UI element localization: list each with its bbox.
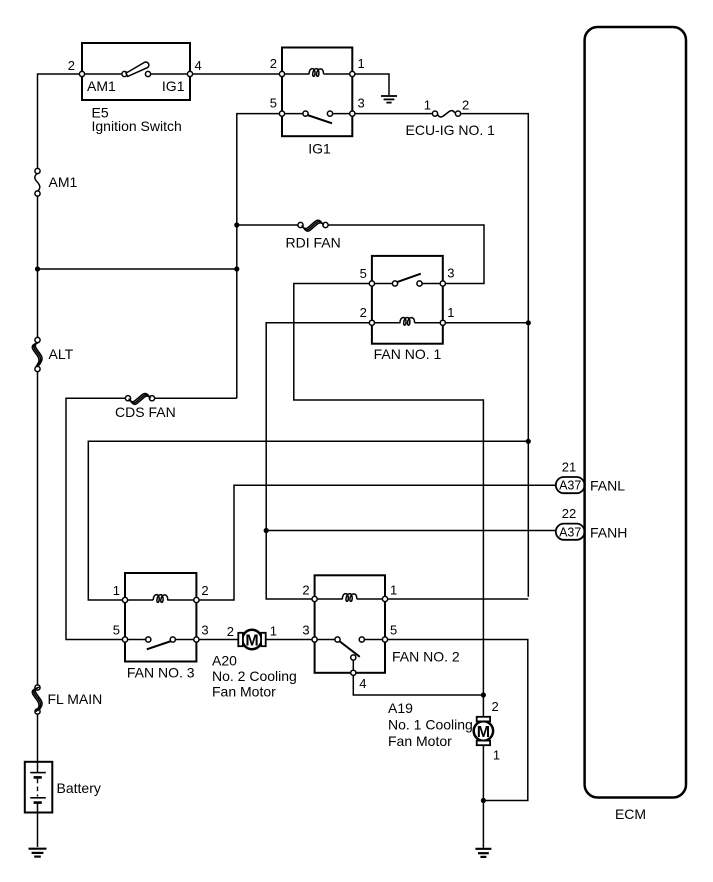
svg-text:ECM: ECM — [615, 806, 646, 822]
fusible link ALT — [32, 337, 42, 371]
svg-text:A37: A37 — [559, 479, 581, 493]
relay FAN NO. 3 — [122, 573, 199, 662]
svg-text:No. 2 Cooling: No. 2 Cooling — [212, 668, 297, 684]
svg-text:Fan Motor: Fan Motor — [388, 733, 452, 749]
svg-text:5: 5 — [113, 623, 120, 638]
wire IG1 pin5 down to CDS FAN — [237, 114, 282, 399]
svg-text:CDS FAN: CDS FAN — [115, 404, 176, 420]
svg-text:1: 1 — [447, 305, 454, 320]
svg-text:FAN NO. 2: FAN NO. 2 — [392, 649, 460, 665]
ground (IG1) — [381, 96, 397, 103]
svg-text:2: 2 — [201, 583, 208, 598]
junction IG1 pin5 bus y269 — [234, 266, 239, 271]
battery — [25, 762, 53, 813]
switch lever FAN NO.3 — [147, 641, 172, 649]
fuse RDI FAN — [298, 220, 328, 231]
wire FAN NO.2 pin4 to A19 motor node — [353, 673, 483, 695]
svg-text:Ignition Switch: Ignition Switch — [92, 118, 182, 134]
svg-text:1: 1 — [270, 624, 277, 639]
wire FAN NO.1 pin1 to ECU-IG bus — [443, 322, 529, 324]
svg-text:3: 3 — [201, 623, 208, 638]
wire FAN NO.3 pin3 to A20 motor to FAN NO.2 pin3 — [196, 639, 314, 641]
relay FAN NO. 2 — [312, 575, 388, 675]
svg-text:21: 21 — [562, 460, 576, 475]
junction ECU-IG bus at FAN NO.1 pin1 — [526, 320, 531, 325]
svg-text:5: 5 — [390, 623, 397, 638]
wire battery positive bus (E5 pin2 down left side to battery) — [38, 74, 83, 762]
wire FANH branch to ECM — [266, 530, 556, 532]
fuse CDS FAN — [125, 393, 154, 404]
junction fan ground node — [481, 798, 486, 803]
svg-text:FAN NO. 1: FAN NO. 1 — [374, 346, 442, 362]
ignition switch E5 — [79, 43, 192, 100]
wire FAN NO.1 pin2 to FAN NO.2 pin2 (FANH net) — [266, 323, 372, 599]
ground (fan motors) — [475, 849, 491, 857]
coil FAN NO.2 — [342, 594, 357, 602]
wire RDI FAN branch to FAN NO.1 pin3 — [237, 225, 484, 284]
svg-text:3: 3 — [358, 96, 365, 111]
wire battery negative to ground — [37, 813, 39, 848]
svg-text:IG1: IG1 — [308, 141, 331, 157]
svg-text:No. 1 Cooling: No. 1 Cooling — [388, 717, 473, 733]
relay IG1 — [279, 48, 355, 137]
svg-text:3: 3 — [302, 623, 309, 638]
wire FAN NO.1 pin5 to A19 motor — [294, 284, 484, 717]
svg-text:A37: A37 — [559, 525, 581, 539]
svg-text:ECU-IG NO. 1: ECU-IG NO. 1 — [406, 122, 496, 138]
svg-text:Battery: Battery — [57, 780, 101, 796]
svg-text:1: 1 — [113, 583, 120, 598]
svg-text:1: 1 — [424, 98, 431, 113]
fuse AM1 — [35, 168, 40, 196]
svg-text:Fan Motor: Fan Motor — [212, 684, 276, 700]
svg-text:22: 22 — [562, 506, 576, 521]
fusible link FL MAIN — [32, 685, 42, 714]
coil IG1 — [309, 69, 324, 77]
svg-text:2: 2 — [462, 98, 469, 113]
wire link AM1 bus to IG1 pin5 bus — [38, 268, 237, 270]
svg-text:2: 2 — [360, 305, 367, 320]
switch lever IG1 — [307, 115, 332, 123]
svg-text:IG1: IG1 — [162, 78, 185, 94]
wire FAN NO.3 pin2 to ECM (FANL net) — [196, 485, 555, 600]
svg-text:FANH: FANH — [590, 525, 627, 541]
junction RDI FAN branch — [234, 222, 239, 227]
svg-text:A19: A19 — [388, 700, 413, 716]
wire FAN NO.2 pin5 down to ground node — [385, 640, 528, 801]
coil FAN NO.3 — [153, 595, 168, 603]
wire A19 motor pin1 to ground — [482, 746, 484, 848]
motor A19 No.1 Cooling Fan Motor — [474, 717, 493, 745]
svg-text:FL MAIN: FL MAIN — [48, 691, 103, 707]
svg-text:2: 2 — [302, 583, 309, 598]
svg-text:A20: A20 — [212, 653, 237, 669]
svg-text:AM1: AM1 — [87, 78, 116, 94]
wire CDS FAN branch down to FAN NO.3 pin5 — [66, 398, 237, 639]
connector A37 FANL pin 21 — [556, 477, 585, 493]
svg-text:2: 2 — [227, 624, 234, 639]
svg-text:5: 5 — [270, 96, 277, 111]
svg-text:1: 1 — [390, 583, 397, 598]
wire E5 pin4 to IG1 relay pin2 — [190, 73, 282, 75]
svg-text:RDI FAN: RDI FAN — [286, 235, 341, 251]
ground (battery) — [29, 849, 47, 857]
motor A20 No.2 Cooling Fan Motor — [238, 630, 265, 650]
svg-text:M: M — [245, 632, 258, 649]
switch lever FAN NO.1 — [397, 274, 421, 283]
svg-text:2: 2 — [270, 56, 277, 71]
connector A37 FANH pin 22 — [556, 524, 585, 540]
wire FAN NO.2 pin1 to ECU-IG bus — [385, 598, 528, 600]
wire IG1 pin1 to ground — [352, 74, 389, 95]
svg-text:3: 3 — [447, 266, 454, 281]
svg-text:2: 2 — [68, 58, 75, 73]
fuse ECU-IG NO. 1 — [432, 111, 460, 117]
svg-text:AM1: AM1 — [49, 174, 78, 190]
junction ECU-IG bus y440.7 — [526, 439, 531, 444]
svg-text:1: 1 — [358, 56, 365, 71]
svg-text:4: 4 — [195, 58, 202, 73]
relay FAN NO. 1 — [369, 256, 445, 344]
wire ECU-IG bus to FAN NO.3 pin1 — [88, 441, 528, 600]
ECM box — [585, 27, 686, 798]
svg-text:1: 1 — [493, 748, 500, 763]
svg-text:FAN NO. 3: FAN NO. 3 — [127, 665, 195, 681]
junction FANH — [264, 528, 269, 533]
svg-text:4: 4 — [359, 676, 366, 691]
coil FAN NO.1 — [400, 317, 415, 325]
svg-text:M: M — [477, 724, 490, 741]
svg-text:2: 2 — [492, 699, 499, 714]
junction A19 motor node — [481, 692, 486, 697]
wire IG1 pin3 through ECU-IG fuse to ECU-IG bus — [352, 114, 528, 597]
svg-text:FANL: FANL — [590, 478, 625, 494]
switch lever FAN NO.2 — [339, 641, 360, 657]
svg-text:ALT: ALT — [49, 346, 74, 362]
junction AM1 bus y269 — [35, 266, 40, 271]
svg-text:5: 5 — [360, 266, 367, 281]
